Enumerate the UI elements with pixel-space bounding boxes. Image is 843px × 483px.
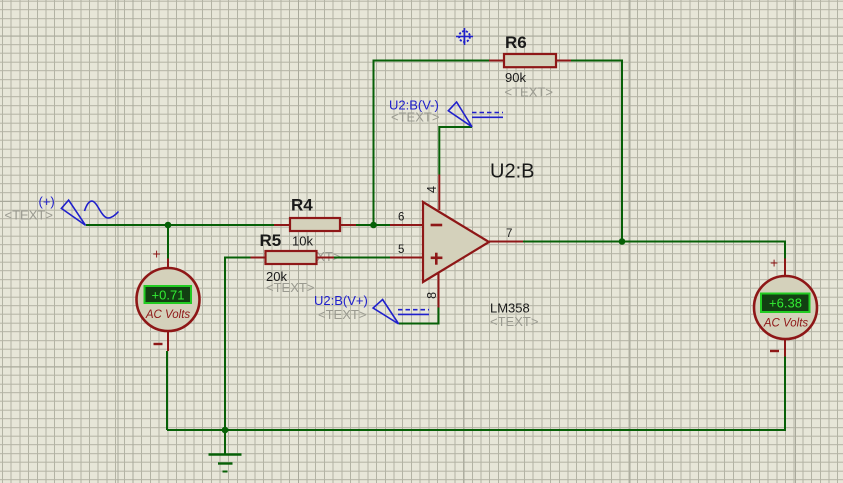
svg-text:+0.71: +0.71 (152, 288, 185, 303)
svg-text:90k: 90k (505, 70, 526, 85)
svg-text:<TEXT>: <TEXT> (318, 307, 366, 322)
svg-text:<TEXT>: <TEXT> (5, 208, 53, 223)
svg-text:8: 8 (425, 292, 439, 299)
svg-text:+: + (153, 246, 161, 262)
svg-text:+6.38: +6.38 (769, 296, 802, 311)
svg-text:R6: R6 (505, 33, 527, 52)
svg-text:+: + (770, 255, 778, 271)
svg-text:AC Volts: AC Volts (763, 318, 809, 330)
svg-text:R4: R4 (291, 196, 313, 215)
svg-text:AC Volts: AC Volts (145, 309, 191, 321)
svg-text:U2:B: U2:B (490, 161, 534, 183)
svg-text:U2:B(V+): U2:B(V+) (314, 293, 368, 308)
svg-text:<TEXT>: <TEXT> (490, 314, 538, 329)
svg-text:<TEXT>: <TEXT> (266, 280, 314, 295)
svg-text:<TEXT>: <TEXT> (505, 85, 553, 100)
svg-text:R5: R5 (260, 231, 282, 250)
svg-text:4: 4 (425, 186, 439, 193)
svg-text:10k: 10k (292, 234, 313, 249)
svg-text:(+): (+) (39, 194, 55, 209)
svg-text:7: 7 (506, 228, 512, 240)
svg-text:5: 5 (398, 244, 404, 256)
svg-text:U2:B(V-): U2:B(V-) (389, 98, 439, 113)
svg-text:6: 6 (398, 212, 404, 224)
